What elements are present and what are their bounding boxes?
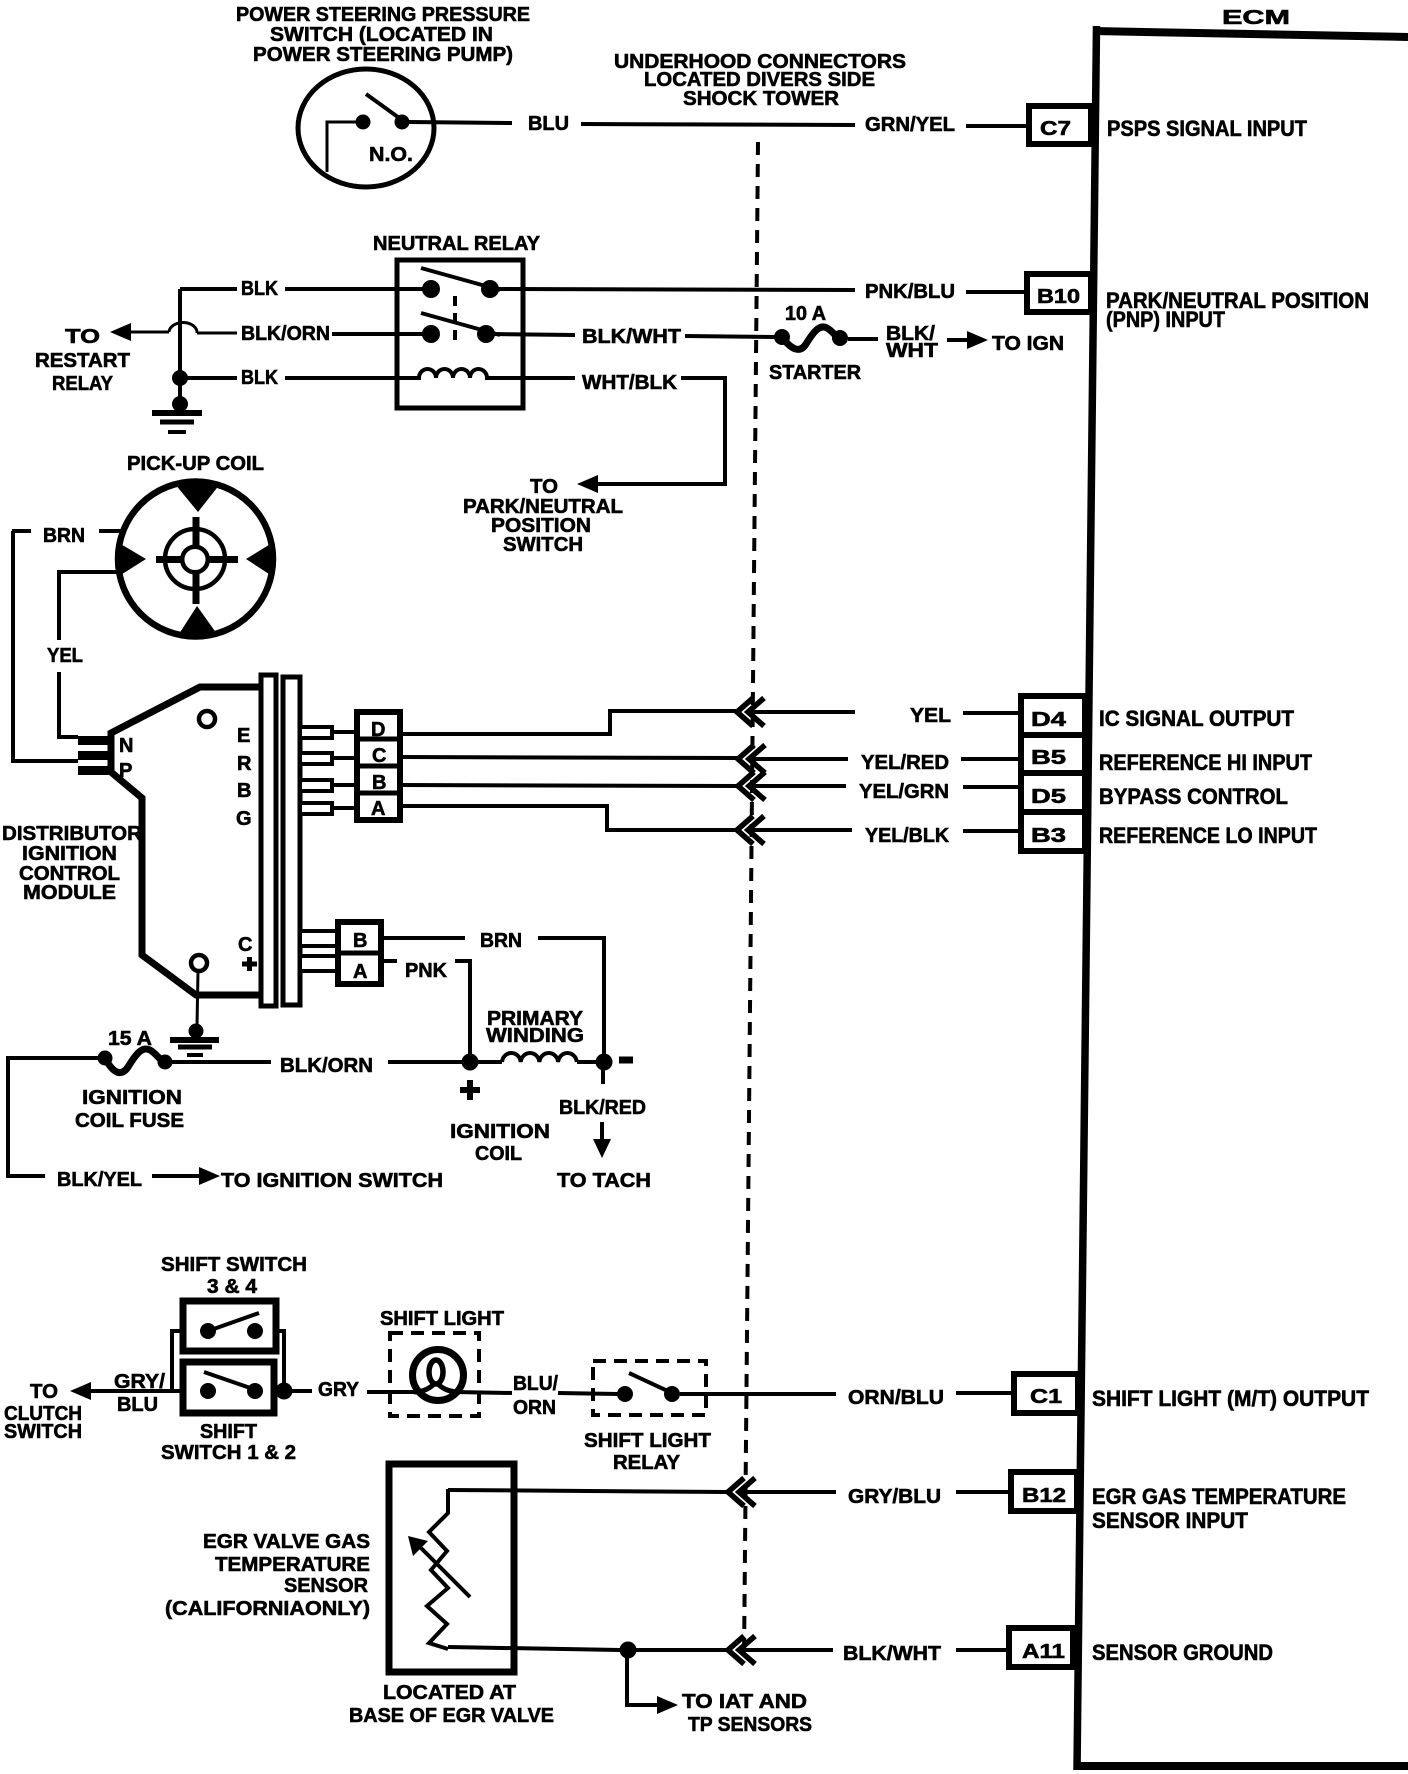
svg-text:IGNITION: IGNITION xyxy=(450,1121,550,1143)
label + at coil positive xyxy=(460,1080,480,1100)
svg-text:STARTER: STARTER xyxy=(769,362,862,384)
shift switch 3&4 caption xyxy=(161,1254,307,1298)
svg-text:TO TACH: TO TACH xyxy=(557,1170,651,1192)
pick-up coil P1 xyxy=(118,482,273,637)
svg-text:BLK/ORN: BLK/ORN xyxy=(241,323,330,345)
label - at coil negative xyxy=(619,1057,633,1064)
svg-text:B: B xyxy=(372,772,386,794)
wire BLK/ORN middle row with hop, to restart relay arrow xyxy=(110,322,428,345)
svg-text:SHOCK TOWER: SHOCK TOWER xyxy=(683,88,840,110)
svg-text:BLK/WHT: BLK/WHT xyxy=(843,1643,941,1665)
wire PNK from pin A to coil positive xyxy=(381,960,470,1054)
EGR valve gas temperature sensor caption xyxy=(165,1531,370,1620)
svg-text:A: A xyxy=(371,798,385,820)
wire BLK/WHT to ign with arrow xyxy=(848,323,1064,362)
svg-text:SWITCH (LOCATED IN: SWITCH (LOCATED IN xyxy=(270,24,493,46)
svg-text:SENSOR GROUND: SENSOR GROUND xyxy=(1092,1640,1273,1665)
svg-text:C7: C7 xyxy=(1040,118,1071,140)
svg-text:RELAY: RELAY xyxy=(613,1452,681,1474)
ECM connector pin D4 : IC SIGNAL OUTPUT xyxy=(1021,696,1295,735)
svg-text:NEUTRAL RELAY: NEUTRAL RELAY xyxy=(373,233,541,255)
power steering pressure switch S1 xyxy=(298,69,434,187)
ECM box outline xyxy=(1074,26,1408,1770)
ECM connector pin D5 : BYPASS CONTROL xyxy=(1021,773,1288,812)
wire pin A (YEL/BLK) to B3 xyxy=(332,806,1021,847)
wire PNK/BLU from relay to B10 xyxy=(496,281,1027,303)
EGR sensor variable arrow xyxy=(408,1536,470,1597)
svg-text:TO: TO xyxy=(530,476,558,498)
inline connector chevron YEL/RED row xyxy=(738,745,765,773)
svg-text:EGR GAS TEMPERATURE: EGR GAS TEMPERATURE xyxy=(1092,1484,1346,1509)
connector B/A block xyxy=(338,922,381,984)
pin letters E R B G xyxy=(236,725,252,830)
svg-text:SHIFT SWITCH: SHIFT SWITCH xyxy=(161,1254,307,1276)
svg-text:TO IGNITION SWITCH: TO IGNITION SWITCH xyxy=(221,1170,443,1192)
junction dot GRY xyxy=(276,1383,293,1400)
svg-text:BLK/RED: BLK/RED xyxy=(559,1097,646,1119)
svg-text:(CALIFORNIAONLY): (CALIFORNIAONLY) xyxy=(165,1598,370,1620)
shift light relay dashed box xyxy=(593,1361,706,1415)
ECM connector pin B10 : PARK/NEUTRAL POSITION (PNP) INPUT xyxy=(1027,274,1369,332)
shift light relay K2 contact xyxy=(617,1373,680,1402)
svg-text:PNK: PNK xyxy=(405,960,448,982)
svg-text:TO IAT AND: TO IAT AND xyxy=(682,1691,807,1713)
ECM connector pin C7 : PSPS SIGNAL INPUT xyxy=(1029,106,1308,144)
wire BLK bottom row into relay coil xyxy=(180,367,397,389)
wire BLK/WHT from EGR sensor to A11 xyxy=(448,1643,1009,1665)
svg-text:BYPASS CONTROL: BYPASS CONTROL xyxy=(1099,784,1288,809)
EGR sensor thermistor zigzag xyxy=(427,1489,448,1649)
svg-text:SHIFT LIGHT (M/T) OUTPUT: SHIFT LIGHT (M/T) OUTPUT xyxy=(1092,1386,1370,1411)
svg-text:RELAY: RELAY xyxy=(52,373,114,395)
svg-text:YEL/GRN: YEL/GRN xyxy=(859,781,949,803)
svg-text:POWER STEERING PUMP): POWER STEERING PUMP) xyxy=(253,44,513,66)
svg-text:TO IGN: TO IGN xyxy=(992,333,1064,355)
svg-text:BLU/: BLU/ xyxy=(513,1373,558,1395)
svg-text:BLU: BLU xyxy=(117,1394,158,1416)
wire to IAT and TP sensors xyxy=(627,1650,812,1736)
svg-text:RESTART: RESTART xyxy=(35,350,130,372)
wire BLU/ORN from bulb to relay xyxy=(454,1373,618,1419)
svg-text:SENSOR INPUT: SENSOR INPUT xyxy=(1092,1508,1249,1533)
module card-edge bar 1 xyxy=(261,675,276,1006)
svg-text:B: B xyxy=(353,930,367,952)
svg-text:WHT/BLK: WHT/BLK xyxy=(582,372,678,394)
svg-text:BLK/YEL: BLK/YEL xyxy=(57,1169,142,1191)
junction dot sensor ground xyxy=(620,1642,637,1659)
wire WHT/BLK from relay to PNP switch arrow xyxy=(523,372,725,493)
ground G1 below relay bus xyxy=(152,396,202,432)
wire pin D (YEL) to D4 xyxy=(332,705,1021,734)
fuse 10A STARTER xyxy=(769,303,862,384)
underhood connector dashed line xyxy=(744,142,758,1658)
svg-text:COIL: COIL xyxy=(475,1143,522,1165)
inline connector chevron YEL row xyxy=(737,698,764,726)
svg-text:DISTRIBUTOR: DISTRIBUTOR xyxy=(2,823,143,845)
distributor ignition control module U1 outline xyxy=(111,687,261,995)
svg-text:GRN/YEL: GRN/YEL xyxy=(865,114,955,136)
module mounting hole bottom (ground pin) xyxy=(191,955,207,971)
svg-text:PNK/BLU: PNK/BLU xyxy=(865,281,955,303)
svg-text:D5: D5 xyxy=(1031,786,1066,808)
to restart relay caption xyxy=(35,326,130,395)
svg-text:IC SIGNAL OUTPUT: IC SIGNAL OUTPUT xyxy=(1099,706,1295,731)
wire pin C (YEL/RED) to B5 xyxy=(332,752,1021,774)
wire BRN from pick-up coil to module pin N xyxy=(12,525,121,761)
inline connector chevron YEL/GRN row xyxy=(738,772,765,800)
svg-text:WHT: WHT xyxy=(886,340,938,362)
svg-text:EGR VALVE GAS: EGR VALVE GAS xyxy=(203,1531,370,1553)
inline connector chevron BLK/WHT row xyxy=(728,1636,755,1664)
module N/P connector prongs xyxy=(78,736,112,775)
svg-text:B5: B5 xyxy=(1031,747,1066,769)
svg-text:SENSOR: SENSOR xyxy=(284,1575,369,1597)
module ground stem xyxy=(197,971,198,1026)
svg-text:E: E xyxy=(237,725,250,747)
shift light dashed box xyxy=(390,1333,479,1416)
wire YEL from pick-up coil to module pin P xyxy=(47,572,117,737)
svg-text:N.O.: N.O. xyxy=(369,144,413,166)
ignition coil primary winding L1 xyxy=(478,1008,596,1062)
svg-text:BLK/ORN: BLK/ORN xyxy=(280,1055,373,1077)
DCBA pin slots xyxy=(300,727,332,814)
svg-text:BLU: BLU xyxy=(528,113,569,135)
shift light bulb DS1 xyxy=(413,1350,464,1401)
neutral relay coil xyxy=(397,369,523,378)
wire BLK top row into relay xyxy=(180,278,428,300)
wire ORN/BLU from relay to C1 xyxy=(680,1387,1014,1409)
svg-text:B3: B3 xyxy=(1031,825,1066,847)
ignition coil caption xyxy=(450,1121,550,1165)
svg-text:10 A: 10 A xyxy=(785,303,826,325)
wire GRY/BLU to clutch switch xyxy=(70,1371,183,1416)
ECM connector pin C1 : SHIFT LIGHT (M/T) OUTPUT xyxy=(1014,1374,1370,1413)
svg-text:C: C xyxy=(372,745,386,767)
svg-text:PICK-UP COIL: PICK-UP COIL xyxy=(127,453,264,475)
module card-edge bar 2 xyxy=(283,677,300,1005)
svg-text:IGNITION: IGNITION xyxy=(82,1087,182,1109)
module mounting hole top xyxy=(199,711,215,727)
svg-text:D: D xyxy=(371,719,385,741)
ECM connector pin B12 : EGR GAS TEMPERATURE SENSOR INPUT xyxy=(1011,1472,1346,1533)
neutral relay mechanical link (dashed) xyxy=(453,296,457,341)
svg-text:B10: B10 xyxy=(1037,286,1080,308)
node - (coil negative) xyxy=(596,1054,613,1071)
left vertical bus wire xyxy=(178,289,182,404)
fuse 15A ignition coil fuse xyxy=(75,1028,184,1132)
svg-text:A: A xyxy=(353,961,367,983)
wire link right side of shift switches xyxy=(276,1331,284,1391)
wire BLK/ORN from fuse to coil positive xyxy=(172,1055,462,1077)
located at base of EGR valve caption xyxy=(349,1682,554,1727)
svg-text:15 A: 15 A xyxy=(108,1028,152,1050)
svg-text:MODULE: MODULE xyxy=(23,882,116,904)
svg-text:B12: B12 xyxy=(1022,1485,1066,1507)
wire BLK/RED to tach xyxy=(557,1070,651,1192)
svg-text:LOCATED AT: LOCATED AT xyxy=(383,1682,516,1704)
to clutch switch caption xyxy=(4,1381,82,1443)
svg-text:GRY/BLU: GRY/BLU xyxy=(848,1486,941,1508)
wire BLK/YEL to ignition switch xyxy=(8,1058,443,1192)
svg-text:WINDING: WINDING xyxy=(486,1025,584,1047)
svg-text:ORN: ORN xyxy=(513,1397,556,1419)
svg-text:C: C xyxy=(238,934,252,956)
svg-text:YEL: YEL xyxy=(910,705,951,727)
svg-text:SWITCH: SWITCH xyxy=(4,1421,82,1443)
shift switch 1&2 box xyxy=(183,1362,274,1413)
svg-text:BRN: BRN xyxy=(480,930,522,952)
svg-text:BLK: BLK xyxy=(241,278,278,300)
svg-text:3 & 4: 3 & 4 xyxy=(207,1276,258,1298)
svg-text:TEMPERATURE: TEMPERATURE xyxy=(215,1554,370,1576)
connector D/C/B/A block xyxy=(357,712,400,820)
neutral relay middle contact xyxy=(421,313,500,343)
EGR temperature sensor RT1 box xyxy=(389,1464,514,1672)
wire GRY/BLU from EGR sensor to B12 xyxy=(448,1486,1011,1508)
to park/neutral position switch caption xyxy=(463,476,623,556)
svg-text:COIL FUSE: COIL FUSE xyxy=(75,1110,184,1132)
wire BRN from pin B to coil negative xyxy=(381,930,604,1054)
inline connector chevron YEL/BLK row xyxy=(737,816,764,844)
wire link left side of shift switches xyxy=(172,1331,183,1391)
ground G2 below module xyxy=(170,1024,219,1056)
svg-text:REFERENCE LO INPUT: REFERENCE LO INPUT xyxy=(1099,823,1317,848)
svg-text:BASE OF EGR VALVE: BASE OF EGR VALVE xyxy=(349,1705,554,1727)
shift switch 3&4 box xyxy=(183,1301,276,1351)
svg-text:GRY/: GRY/ xyxy=(114,1371,165,1393)
svg-text:BLK: BLK xyxy=(241,367,278,389)
shift switch 1&2 caption xyxy=(161,1421,296,1464)
svg-text:P: P xyxy=(119,760,132,782)
junction dot on BLK wire xyxy=(172,370,188,386)
shift light relay caption xyxy=(584,1430,711,1474)
svg-text:IGNITION: IGNITION xyxy=(22,843,117,865)
wire BLK/WHT from relay to starter fuse xyxy=(492,326,777,348)
wire BLU / GRN-YEL from PSPS to C7 xyxy=(409,113,1029,136)
svg-text:R: R xyxy=(237,753,252,775)
wire pin B (YEL/GRN) to D5 xyxy=(332,781,1021,803)
svg-text:SHIFT LIGHT: SHIFT LIGHT xyxy=(584,1430,711,1452)
svg-text:PSPS SIGNAL INPUT: PSPS SIGNAL INPUT xyxy=(1107,116,1308,141)
svg-text:ORN/BLU: ORN/BLU xyxy=(848,1387,944,1409)
svg-text:D4: D4 xyxy=(1031,709,1067,731)
svg-text:SWITCH 1 & 2: SWITCH 1 & 2 xyxy=(161,1442,296,1464)
power steering pressure switch caption xyxy=(236,4,530,66)
ECM connector pin B5 : REFERENCE HI INPUT xyxy=(1021,735,1312,775)
svg-text:SWITCH: SWITCH xyxy=(503,534,583,556)
distributor module caption xyxy=(2,823,143,904)
svg-text:TP SENSORS: TP SENSORS xyxy=(688,1714,812,1736)
svg-text:YEL: YEL xyxy=(47,645,83,667)
svg-text:REFERENCE HI INPUT: REFERENCE HI INPUT xyxy=(1099,750,1312,775)
svg-text:GRY: GRY xyxy=(318,1379,360,1401)
svg-text:TO: TO xyxy=(30,1381,58,1403)
svg-text:G: G xyxy=(236,808,252,830)
svg-text:BLK/WHT: BLK/WHT xyxy=(582,326,681,348)
svg-text:A11: A11 xyxy=(1022,1641,1065,1663)
svg-text:SHIFT: SHIFT xyxy=(200,1421,257,1443)
inline connector chevron GRY/BLU row xyxy=(728,1478,755,1506)
svg-text:YEL/BLK: YEL/BLK xyxy=(865,825,950,847)
B/A pin slots xyxy=(300,931,338,971)
ECM connector pin A11 : SENSOR GROUND xyxy=(1009,1628,1273,1667)
neutral relay K1 box xyxy=(397,260,523,408)
svg-text:BRN: BRN xyxy=(43,525,85,547)
svg-text:POWER STEERING PRESSURE: POWER STEERING PRESSURE xyxy=(236,4,530,26)
neutral relay top contact xyxy=(421,268,500,298)
svg-text:C1: C1 xyxy=(1030,1386,1062,1408)
svg-text:TO: TO xyxy=(65,326,100,348)
svg-text:N: N xyxy=(119,735,133,757)
svg-text:(PNP) INPUT: (PNP) INPUT xyxy=(1106,307,1226,332)
node + (coil positive) xyxy=(462,1054,479,1071)
wire GRY to shift light xyxy=(292,1379,421,1401)
ECM connector pin B3 : REFERENCE LO INPUT xyxy=(1021,812,1317,851)
svg-text:ECM: ECM xyxy=(1222,7,1290,29)
svg-text:YEL/RED: YEL/RED xyxy=(861,752,949,774)
pin label + xyxy=(242,957,257,971)
svg-text:B: B xyxy=(237,780,251,802)
svg-text:SHIFT LIGHT: SHIFT LIGHT xyxy=(380,1308,504,1330)
underhood connectors caption xyxy=(614,51,906,110)
